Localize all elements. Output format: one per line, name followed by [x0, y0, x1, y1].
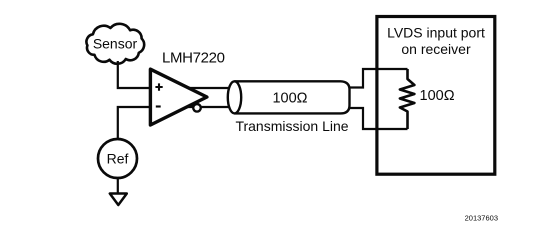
wire sensor to + input [118, 61, 151, 88]
op-amp U1 (LMH7220 comparator) [150, 69, 207, 125]
svg-text:on receiver: on receiver [401, 41, 471, 57]
transmission line left end ellipse [228, 81, 241, 113]
transmission line T1 (coax body) [235, 81, 350, 113]
svg-text:Sensor: Sensor [93, 36, 138, 52]
svg-text:LMH7220: LMH7220 [162, 50, 225, 67]
wire Q output (top) [188, 87, 235, 89]
svg-text:Transmission Line: Transmission Line [235, 118, 348, 134]
wire bottom output to resistor bottom [349, 108, 408, 129]
svg-text:20137603: 20137603 [465, 214, 498, 223]
cloud Sensor [86, 24, 144, 64]
wire Ref to ground [117, 178, 119, 194]
ground [110, 194, 127, 206]
wire Qbar output (bottom) [186, 106, 235, 108]
node Ref [98, 139, 137, 178]
resistor R1 100 ohm [400, 69, 415, 129]
svg-text:100Ω: 100Ω [272, 90, 307, 106]
inversion bubble on Qbar [193, 104, 201, 112]
LVDS receiver box [377, 17, 495, 175]
svg-text:LVDS input port: LVDS input port [387, 25, 485, 41]
wire Ref to - input [118, 107, 151, 140]
wire top output to resistor top [349, 69, 408, 88]
svg-text:Ref: Ref [107, 151, 129, 167]
svg-text:100Ω: 100Ω [420, 88, 455, 104]
